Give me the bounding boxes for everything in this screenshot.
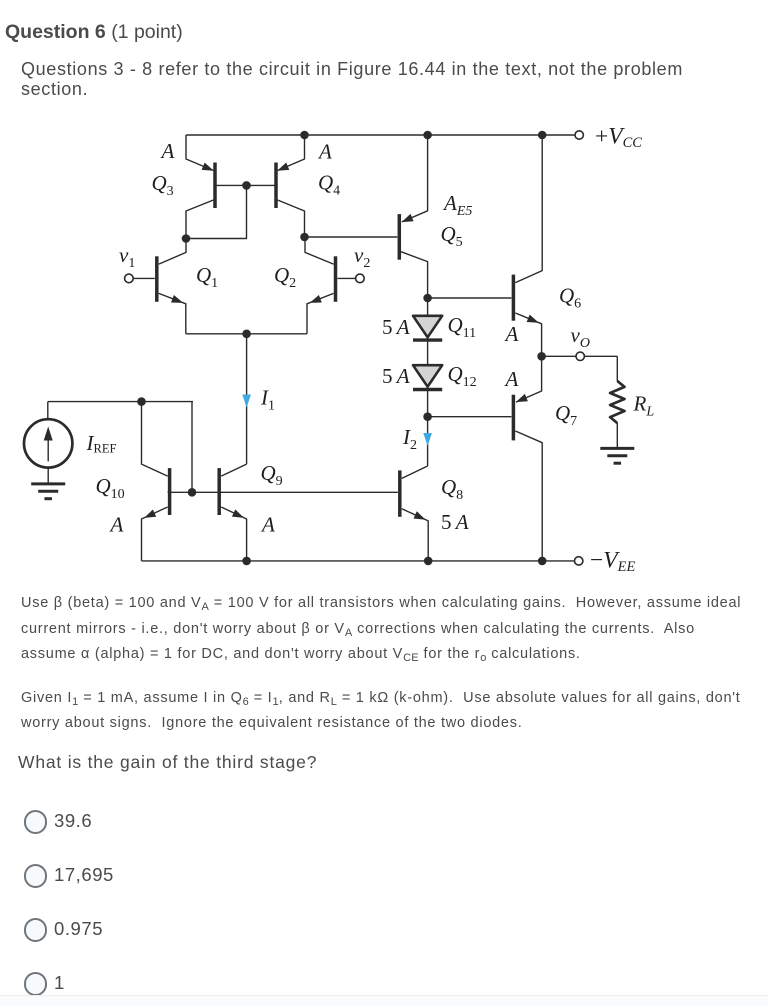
svg-text:v2: v2 bbox=[354, 243, 370, 271]
svg-text:Q12: Q12 bbox=[448, 362, 477, 390]
svg-text:A: A bbox=[504, 367, 519, 391]
svg-text:A: A bbox=[109, 513, 124, 537]
svg-text:Q4: Q4 bbox=[318, 171, 340, 199]
svg-text:A: A bbox=[260, 513, 275, 537]
svg-text:Q3: Q3 bbox=[152, 171, 174, 199]
svg-text:A: A bbox=[160, 139, 175, 163]
svg-text:Q11: Q11 bbox=[448, 313, 477, 341]
svg-text:Q8: Q8 bbox=[441, 475, 463, 503]
svg-text:Q10: Q10 bbox=[96, 474, 125, 502]
svg-text:Q1: Q1 bbox=[196, 263, 218, 291]
svg-text:A: A bbox=[504, 322, 519, 346]
svg-text:5 A: 5 A bbox=[382, 364, 410, 388]
svg-text:RL: RL bbox=[633, 392, 655, 420]
svg-text:IREF: IREF bbox=[86, 431, 117, 456]
svg-text:5 A: 5 A bbox=[382, 315, 410, 339]
svg-text:−VEE: −VEE bbox=[590, 548, 635, 576]
svg-text:v1: v1 bbox=[119, 243, 135, 271]
svg-text:I2: I2 bbox=[402, 425, 417, 453]
svg-text:Q9: Q9 bbox=[261, 461, 283, 489]
svg-text:+VCC: +VCC bbox=[595, 124, 642, 152]
svg-text:AE5: AE5 bbox=[442, 191, 472, 219]
svg-text:I1: I1 bbox=[260, 386, 275, 414]
svg-text:Q6: Q6 bbox=[559, 284, 581, 312]
svg-text:Q5: Q5 bbox=[441, 222, 463, 250]
svg-text:Q7: Q7 bbox=[555, 401, 577, 429]
svg-text:A: A bbox=[317, 140, 332, 164]
svg-text:Q2: Q2 bbox=[274, 263, 296, 291]
svg-text:5 A: 5 A bbox=[441, 510, 469, 534]
svg-text:vO: vO bbox=[571, 323, 590, 351]
